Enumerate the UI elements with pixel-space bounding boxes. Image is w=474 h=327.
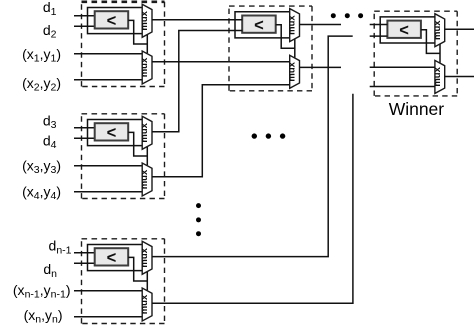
wire B2 distance input a <box>74 127 95 129</box>
wire B3 distance input b <box>74 262 95 264</box>
dashed enclosure B3 <box>82 239 165 324</box>
svg-text:<: < <box>399 21 409 39</box>
svg-text:mux: mux <box>139 122 150 142</box>
mux B3B (coordinate select) <box>139 288 152 321</box>
mux B2A (distance select) <box>139 116 152 149</box>
svg-text:<: < <box>107 249 117 267</box>
wire S2 bypass loop to mux inputs <box>235 12 290 38</box>
svg-text:<: < <box>254 16 264 34</box>
wire B3 muxA out riser toward winner comparator <box>152 36 353 257</box>
wire winner comparator input b <box>370 35 388 37</box>
wire S2 muxB out (to elided stages) <box>300 66 342 68</box>
svg-text:(x1,y1): (x1,y1) <box>22 46 61 65</box>
svg-text:(xn,yn): (xn,yn) <box>24 307 63 326</box>
wire winner comparator input a <box>370 24 388 26</box>
svg-text:mux: mux <box>432 20 443 40</box>
svg-text:mux: mux <box>139 247 150 267</box>
svg-text:<: < <box>107 12 117 30</box>
wire B1 distance input b <box>74 25 95 27</box>
svg-text:d3: d3 <box>43 112 57 131</box>
comparator B3 <box>95 248 129 267</box>
wire winner muxB output <box>445 76 474 78</box>
comparator S2 <box>242 16 276 35</box>
ellipsis dots vertical (elided rows) <box>196 203 201 236</box>
svg-text:Winner: Winner <box>389 99 445 119</box>
svg-text:mux: mux <box>139 57 150 77</box>
wire B2 bypass loop to mux inputs <box>88 120 143 146</box>
wire W comparator output to mux selects <box>421 30 440 63</box>
comparator W <box>387 21 421 40</box>
wire B3 distance input a <box>74 252 95 254</box>
wire B2 comparator output to mux selects <box>128 132 147 165</box>
wire B2 distance input b <box>74 137 95 139</box>
svg-text:dn: dn <box>43 261 57 280</box>
ellipsis dots top (elided stages) <box>331 13 363 18</box>
svg-text:d1: d1 <box>43 0 57 18</box>
mux B1B (coordinate select) <box>139 51 152 84</box>
svg-text:mux: mux <box>139 294 150 314</box>
mux B2B (coordinate select) <box>139 163 152 196</box>
wire winner muxB input a <box>370 66 435 68</box>
svg-text:(x4,y4): (x4,y4) <box>22 183 61 202</box>
wire winner muxA output <box>445 28 474 30</box>
mux WB (coordinate select) <box>432 60 445 93</box>
svg-text:mux: mux <box>432 66 443 86</box>
ellipsis dots middle (elided blocks) <box>252 133 286 138</box>
svg-text:mux: mux <box>139 169 150 189</box>
wire B1 muxA out to S2 comparator input a <box>152 19 242 21</box>
wire B2 muxA out riser to S2 comparator input b <box>152 31 242 132</box>
wire B2 coord input b <box>74 191 142 193</box>
mux B1A (distance select) <box>139 4 152 37</box>
svg-text:d4: d4 <box>43 132 57 151</box>
wire winner muxB input b <box>370 86 435 88</box>
mux S2A (distance select) <box>287 9 300 42</box>
mux B3A (distance select) <box>139 241 152 274</box>
wire B1 distance input a <box>74 15 95 17</box>
wire S2 muxA out (to elided stages) <box>300 24 342 26</box>
wire B3 muxB out riser (to elided stages) <box>152 94 353 303</box>
wire B1 comparator output to mux selects <box>128 20 147 53</box>
wire B2 muxB out riser to S2 muxB input b <box>152 85 290 177</box>
dashed enclosure W <box>374 11 457 96</box>
svg-text:mux: mux <box>139 10 150 30</box>
wire B1 coord input b <box>74 79 142 81</box>
wire W bypass loop to mux inputs <box>380 17 435 43</box>
comparator B2 <box>95 123 129 142</box>
svg-text:d2: d2 <box>43 22 57 41</box>
svg-text:(x2,y2): (x2,y2) <box>22 75 61 94</box>
wire B1 coord input a <box>74 53 142 55</box>
wire B3 comparator output to mux selects <box>128 257 147 290</box>
svg-text:<: < <box>107 124 117 142</box>
wire B3 coord input a <box>74 290 142 292</box>
wire B2 coord input a <box>74 165 142 167</box>
dashed enclosure B1 <box>82 2 165 87</box>
svg-text:(x3,y3): (x3,y3) <box>22 157 61 176</box>
comparator B1 <box>95 11 129 30</box>
svg-text:mux: mux <box>287 15 298 35</box>
svg-text:mux: mux <box>287 61 298 81</box>
wire B1 muxB out to S2 muxB input a <box>152 61 290 63</box>
svg-text:(xn-1,yn-1): (xn-1,yn-1) <box>13 282 71 301</box>
wire S2 comparator output to mux selects <box>276 25 295 58</box>
svg-text:dn-1: dn-1 <box>49 238 72 257</box>
dashed enclosure B2 <box>82 114 165 199</box>
mux S2B (coordinate select) <box>287 55 300 88</box>
wire B1 bypass loop to mux inputs <box>88 8 143 34</box>
wire B3 bypass loop to mux inputs <box>88 245 143 271</box>
wire B3 coord input b <box>74 316 142 318</box>
dashed enclosure S2 <box>229 6 312 91</box>
mux WA (distance select) <box>432 14 445 47</box>
